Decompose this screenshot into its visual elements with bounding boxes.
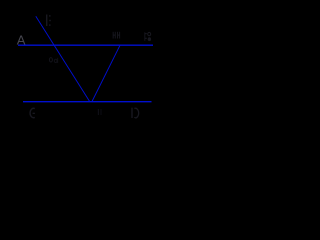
- svg-text:A: A: [17, 33, 26, 48]
